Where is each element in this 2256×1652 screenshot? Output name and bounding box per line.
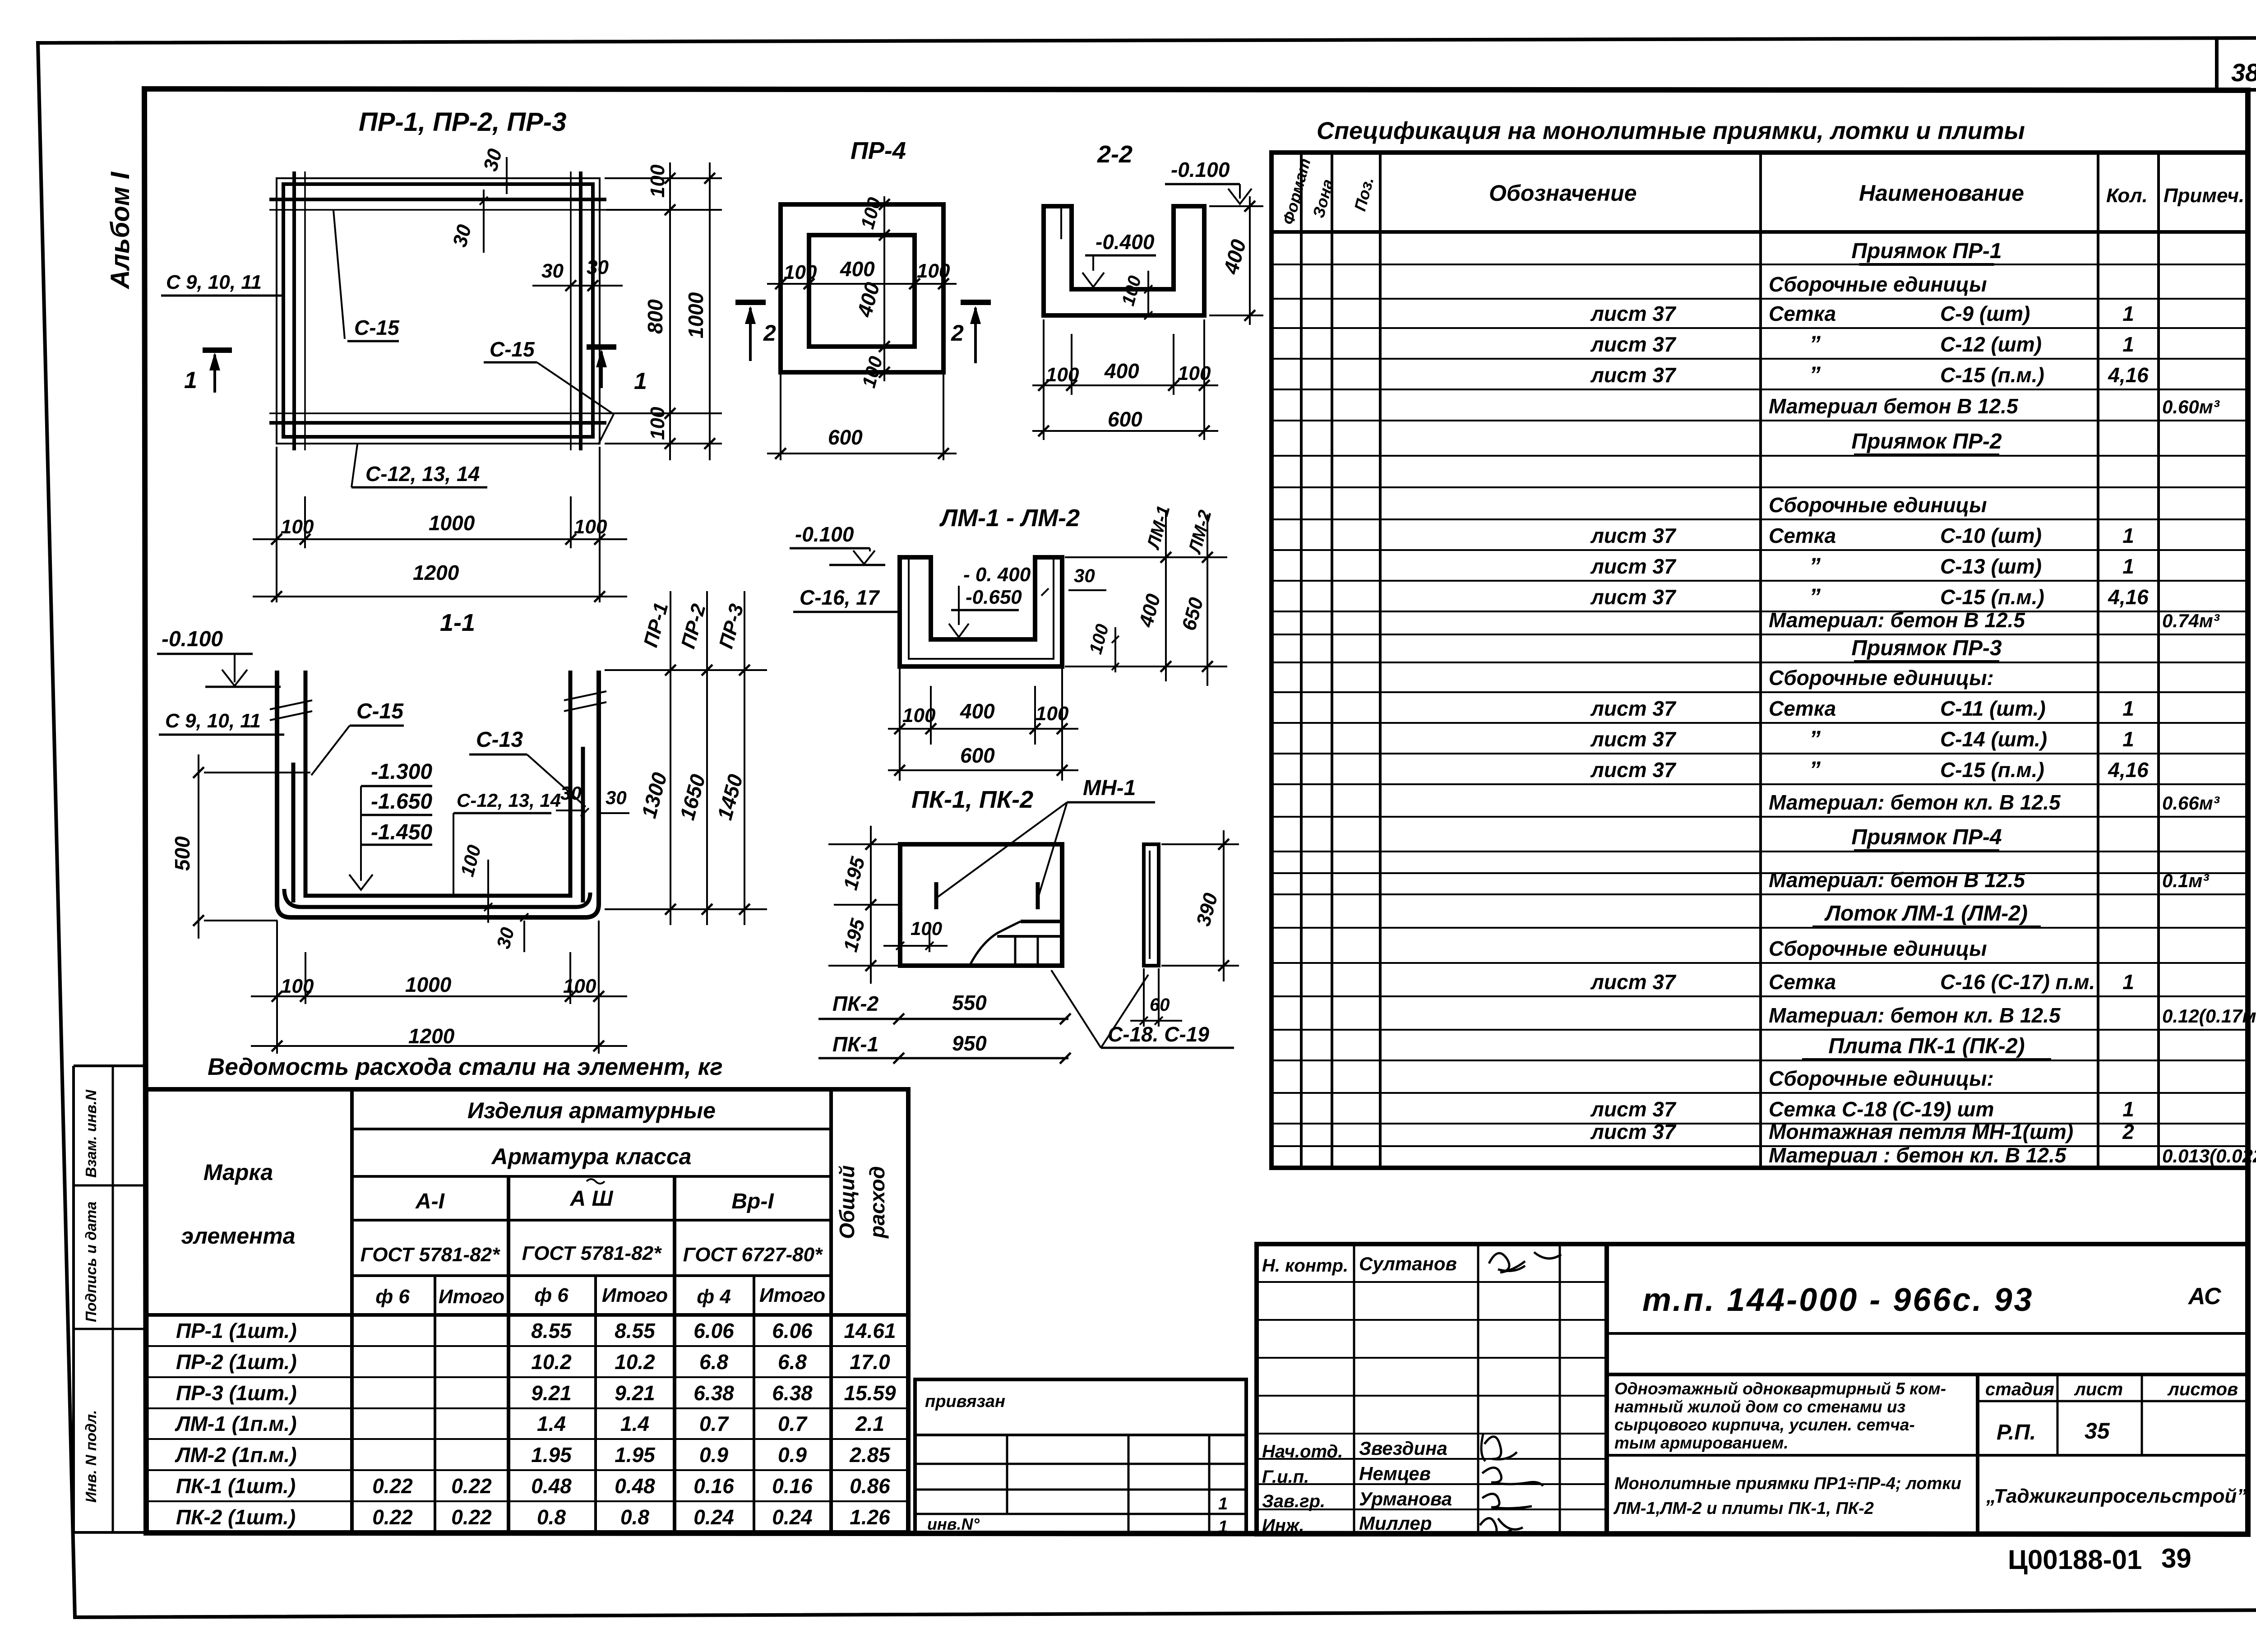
steel table header horizontals bbox=[352, 1128, 831, 1130]
svg-text:10.2: 10.2 bbox=[531, 1350, 572, 1374]
svg-text:39: 39 bbox=[2161, 1543, 2191, 1573]
svg-text:Н. контр.: Н. контр. bbox=[1262, 1256, 1348, 1276]
svg-text:100: 100 bbox=[1036, 703, 1069, 725]
svg-text:1: 1 bbox=[634, 368, 647, 394]
svg-text:0.9: 0.9 bbox=[699, 1443, 728, 1467]
section 1-1 bottom dims 100 1000 100 bbox=[276, 921, 278, 1054]
svg-text:0.16: 0.16 bbox=[772, 1474, 813, 1498]
svg-text:1: 1 bbox=[2122, 727, 2134, 751]
svg-text:„Таджикгипросельстрой”: „Таджикгипросельстрой” bbox=[1986, 1485, 2247, 1507]
svg-text:Изделия арматурные: Изделия арматурные bbox=[467, 1098, 716, 1123]
svg-text:30: 30 bbox=[560, 782, 582, 804]
svg-text:100: 100 bbox=[281, 975, 314, 997]
svg-text:расход: расход bbox=[865, 1166, 889, 1239]
svg-text:10.2: 10.2 bbox=[615, 1350, 655, 1374]
svg-text:195: 195 bbox=[839, 854, 869, 892]
specification table header bottom line bbox=[1271, 230, 2248, 234]
svg-text:Звездина: Звездина bbox=[1359, 1438, 1447, 1459]
svg-text:ЛМ-1,ЛМ-2 и плиты ПК-1, ПК-: ЛМ-1,ЛМ-2 и плиты ПК-1, ПК-2 bbox=[1613, 1499, 1874, 1518]
svg-text:17.0: 17.0 bbox=[850, 1350, 890, 1374]
svg-text:ПР-3 (1шт.): ПР-3 (1шт.) bbox=[176, 1381, 297, 1405]
LM U channel outline bbox=[900, 557, 1062, 666]
LM right dim chains 400 650 bbox=[1065, 556, 1227, 558]
svg-text:Альбом I: Альбом I bbox=[106, 171, 135, 290]
svg-text:0.86: 0.86 bbox=[850, 1474, 890, 1498]
svg-text:С-12, 13, 14: С-12, 13, 14 bbox=[457, 790, 561, 811]
signature table bbox=[1257, 1244, 1607, 1534]
svg-text:С-15: С-15 bbox=[356, 699, 404, 723]
svg-text:Формат: Формат bbox=[1279, 156, 1314, 227]
svg-text:0.013(0.022): 0.013(0.022) bbox=[2162, 1145, 2256, 1166]
svg-text:2: 2 bbox=[2122, 1120, 2134, 1143]
plan bottom dim 1200 bbox=[253, 596, 627, 597]
svg-text:0.66м³: 0.66м³ bbox=[2162, 792, 2220, 814]
svg-text:лист 37: лист 37 bbox=[1590, 302, 1677, 325]
svg-text:6.38: 6.38 bbox=[693, 1381, 734, 1405]
LM bottom dim 600 bbox=[888, 769, 1078, 771]
svg-text:2.85: 2.85 bbox=[849, 1443, 891, 1467]
svg-text:С-14 (шт.): С-14 (шт.) bbox=[1940, 727, 2047, 751]
svg-text:-0.100: -0.100 bbox=[795, 523, 854, 546]
svg-text:0.48: 0.48 bbox=[531, 1474, 572, 1498]
svg-text:Миллер: Миллер bbox=[1359, 1513, 1432, 1534]
svg-text:30: 30 bbox=[541, 260, 564, 282]
svg-text:лист 37: лист 37 bbox=[1590, 363, 1677, 387]
svg-text:ПР-1: ПР-1 bbox=[639, 600, 672, 649]
svg-text:Инж.: Инж. bbox=[1262, 1516, 1304, 1536]
svg-text:30: 30 bbox=[479, 146, 506, 173]
svg-text:Итого: Итого bbox=[759, 1284, 825, 1306]
svg-text:С-15 (п.м.): С-15 (п.м.) bbox=[1940, 363, 2044, 387]
svg-text:Плита ПК-1 (ПК-2): Плита ПК-1 (ПК-2) bbox=[1828, 1034, 2025, 1058]
specification table outer border bbox=[1271, 153, 2248, 1168]
svg-text:400: 400 bbox=[1219, 237, 1250, 277]
svg-text:Вр-I: Вр-I bbox=[731, 1189, 774, 1213]
svg-text:1: 1 bbox=[2122, 1097, 2134, 1121]
svg-text:С-13 (шт): С-13 (шт) bbox=[1940, 555, 2042, 578]
svg-text:Ведомость расхода стали н: Ведомость расхода стали на элемент, кг bbox=[208, 1054, 723, 1080]
section 1-1 U-shaped pit outline outer bbox=[277, 671, 599, 917]
svg-text:лист 37: лист 37 bbox=[1590, 585, 1677, 609]
svg-text:лист 37: лист 37 bbox=[1590, 970, 1677, 994]
svg-text:Обозначение: Обозначение bbox=[1489, 180, 1637, 206]
svg-text:1300: 1300 bbox=[637, 770, 671, 821]
svg-text:лист 37: лист 37 bbox=[1590, 524, 1677, 547]
LM mesh lines inside walls bbox=[908, 560, 910, 660]
svg-text:8.55: 8.55 bbox=[531, 1319, 572, 1342]
main title block bbox=[1607, 1244, 2248, 1534]
svg-text:Сетка: Сетка bbox=[1769, 524, 1836, 547]
svg-text:Зав.гр.: Зав.гр. bbox=[1262, 1491, 1325, 1511]
svg-text:”: ” bbox=[1809, 584, 1821, 609]
svg-text:ПК-1, ПК-2: ПК-1, ПК-2 bbox=[911, 786, 1033, 813]
svg-text:600: 600 bbox=[1108, 407, 1142, 431]
svg-text:С-18. С-19: С-18. С-19 bbox=[1108, 1023, 1209, 1046]
svg-text:ф 6: ф 6 bbox=[375, 1286, 410, 1308]
svg-text:800: 800 bbox=[643, 299, 667, 334]
sheet number box 38 top-right bbox=[2215, 39, 2219, 90]
svg-text:100: 100 bbox=[858, 354, 887, 390]
svg-text:1: 1 bbox=[2122, 524, 2134, 547]
svg-text:Арматура класса: Арматура класса bbox=[491, 1144, 692, 1169]
svg-text:тым армированием.: тым армированием. bbox=[1614, 1434, 1789, 1452]
svg-text:195: 195 bbox=[839, 916, 869, 954]
svg-text:2: 2 bbox=[951, 320, 964, 346]
svg-text:ПР-1, ПР-2, ПР-3: ПР-1, ПР-2, ПР-3 bbox=[359, 107, 566, 137]
svg-text:6.8: 6.8 bbox=[699, 1350, 728, 1374]
plan bottom dim chain 100-1000-100 bbox=[276, 447, 277, 602]
svg-text:4,16: 4,16 bbox=[2108, 363, 2149, 387]
svg-text:МН-1: МН-1 bbox=[1083, 776, 1136, 800]
svg-text:0.22: 0.22 bbox=[372, 1505, 413, 1529]
svg-text:С 9, 10, 11: С 9, 10, 11 bbox=[165, 710, 261, 732]
svg-text:Немцев: Немцев bbox=[1359, 1463, 1431, 1484]
plan PR-1/2/3 outer wall edge rectangle bbox=[277, 178, 600, 444]
svg-text:6.8: 6.8 bbox=[778, 1350, 807, 1374]
svg-text:6.38: 6.38 bbox=[772, 1381, 813, 1405]
left margin attachment strip bbox=[74, 1064, 145, 1067]
svg-text:0.22: 0.22 bbox=[372, 1474, 413, 1498]
svg-text:Сборочные единицы:: Сборочные единицы: bbox=[1769, 666, 1994, 689]
svg-text:1000: 1000 bbox=[684, 292, 707, 338]
svg-text:Сборочные единицы: Сборочные единицы bbox=[1769, 937, 1987, 960]
svg-text:Нач.отд.: Нач.отд. bbox=[1262, 1442, 1343, 1462]
specification table column lines bbox=[1300, 153, 1303, 1168]
svg-text:30: 30 bbox=[448, 222, 476, 249]
svg-text:Монолитные приямки ПР1÷ПР-4; л: Монолитные приямки ПР1÷ПР-4; лотки bbox=[1614, 1474, 1961, 1493]
svg-text:-0.100: -0.100 bbox=[162, 627, 223, 651]
svg-text:0.60м³: 0.60м³ bbox=[2162, 396, 2220, 417]
plan inner wall edge horizontal bottom bbox=[269, 412, 606, 414]
rebar mesh horizontal along floor bbox=[284, 889, 590, 907]
svg-text:ф 4: ф 4 bbox=[697, 1286, 731, 1308]
svg-text:1000: 1000 bbox=[429, 511, 475, 535]
plan inner wall edge vertical left bbox=[304, 171, 306, 450]
svg-text:-1.450: -1.450 bbox=[371, 820, 432, 844]
plan mesh grid thick vertical right bbox=[579, 171, 582, 450]
svg-text:ф 6: ф 6 bbox=[534, 1284, 569, 1306]
svg-text:30: 30 bbox=[492, 925, 518, 951]
svg-text:100: 100 bbox=[281, 516, 314, 538]
svg-text:ГОСТ 5781-82*: ГОСТ 5781-82* bbox=[522, 1242, 662, 1264]
svg-text:Наименование: Наименование bbox=[1859, 180, 2024, 206]
svg-text:0.9: 0.9 bbox=[778, 1443, 807, 1467]
svg-text:привязан: привязан bbox=[925, 1392, 1005, 1411]
svg-text:30: 30 bbox=[587, 256, 609, 278]
plan inner wall edge vertical right bbox=[570, 171, 572, 450]
svg-text:0.48: 0.48 bbox=[615, 1474, 655, 1498]
svg-text:лист: лист bbox=[2074, 1379, 2123, 1399]
svg-text:100: 100 bbox=[1086, 622, 1113, 656]
svg-text:100: 100 bbox=[574, 516, 607, 538]
svg-text:ЛМ-1 - ЛМ-2: ЛМ-1 - ЛМ-2 bbox=[939, 504, 1080, 532]
PR-4 horizontal dim line 100 400 100 bbox=[767, 283, 957, 285]
svg-text:АС: АС bbox=[2187, 1283, 2222, 1310]
svg-text:950: 950 bbox=[952, 1032, 987, 1055]
svg-text:С-15: С-15 bbox=[490, 338, 535, 361]
svg-text:0.8: 0.8 bbox=[620, 1505, 649, 1529]
svg-text:Подпись и дата: Подпись и дата bbox=[83, 1202, 99, 1323]
svg-text:Ц00188-01: Ц00188-01 bbox=[2008, 1545, 2142, 1575]
PK left dim chain 195 195 bbox=[828, 843, 898, 845]
svg-text:30: 30 bbox=[606, 787, 627, 808]
svg-text:ПР-2 (1шт.): ПР-2 (1шт.) bbox=[176, 1350, 297, 1374]
steel table data row lines bbox=[146, 1345, 908, 1347]
svg-text:1650: 1650 bbox=[675, 772, 710, 823]
svg-text:1: 1 bbox=[2122, 302, 2134, 325]
steel table verticals bbox=[350, 1089, 354, 1532]
svg-text:500: 500 bbox=[171, 836, 194, 871]
svg-text:С-16 (С-17) п.м.: С-16 (С-17) п.м. bbox=[1940, 970, 2095, 994]
svg-text:1: 1 bbox=[2122, 333, 2134, 356]
svg-text:”: ” bbox=[1809, 757, 1821, 782]
svg-text:-1.300: -1.300 bbox=[371, 760, 432, 784]
svg-text:0.7: 0.7 bbox=[778, 1412, 808, 1435]
svg-text:С-15 (п.м.): С-15 (п.м.) bbox=[1940, 585, 2044, 609]
svg-text:100: 100 bbox=[1178, 362, 1211, 384]
svg-text:Инв. N подл.: Инв. N подл. bbox=[83, 1410, 99, 1503]
svg-text:Г.и.п.: Г.и.п. bbox=[1262, 1467, 1309, 1487]
dim 60 below side plate bbox=[1143, 968, 1145, 1027]
plan inner wall edge horizontal top bbox=[269, 209, 606, 211]
svg-text:-1.650: -1.650 bbox=[371, 790, 432, 814]
section mark 1 right of plan bbox=[587, 344, 616, 350]
svg-text:0.12(0.17м³: 0.12(0.17м³ bbox=[2162, 1005, 2256, 1027]
rebar mesh vertical left in section 1-1 bbox=[291, 763, 296, 902]
svg-text:ПК-1: ПК-1 bbox=[832, 1032, 878, 1056]
svg-text:Материал: бетон кл. В 12.5: Материал: бетон кл. В 12.5 bbox=[1769, 791, 2061, 814]
svg-text:1: 1 bbox=[1218, 1518, 1228, 1536]
svg-text:Материал : бетон кл. В 12.5: Материал : бетон кл. В 12.5 bbox=[1769, 1143, 2067, 1167]
svg-text:Приямок ПР-4: Приямок ПР-4 bbox=[1851, 825, 2002, 849]
section 1-1 U-shape inner edge bbox=[305, 671, 570, 896]
PK side plate view bbox=[1144, 844, 1159, 966]
svg-text:0.24: 0.24 bbox=[772, 1505, 813, 1529]
steel table outer border bbox=[146, 1089, 908, 1532]
svg-text:1: 1 bbox=[1218, 1495, 1228, 1513]
MN-1 loop marks inside plate bbox=[934, 882, 938, 909]
break mark on left wall bbox=[270, 700, 312, 709]
svg-text:100: 100 bbox=[563, 975, 596, 997]
svg-text:А Ш: А Ш bbox=[570, 1187, 614, 1211]
svg-text:ПК-1 (1шт.): ПК-1 (1шт.) bbox=[176, 1474, 296, 1498]
svg-text:ЛМ-1: ЛМ-1 bbox=[1143, 504, 1174, 552]
svg-text:400: 400 bbox=[1104, 359, 1139, 383]
svg-text:Приямок ПР-2: Приямок ПР-2 bbox=[1851, 430, 2002, 453]
svg-text:листов: листов bbox=[2167, 1379, 2238, 1399]
svg-text:1200: 1200 bbox=[408, 1024, 455, 1048]
svg-text:100: 100 bbox=[647, 164, 669, 198]
svg-text:- 0. 400: - 0. 400 bbox=[963, 564, 1031, 586]
plan mesh grid thick horizontal top bbox=[269, 198, 606, 201]
svg-text:Материал: бетон В 12.5: Материал: бетон В 12.5 bbox=[1769, 868, 2025, 892]
svg-text:400: 400 bbox=[1135, 591, 1165, 629]
svg-text:Монтажная петля МН-1(шт): Монтажная петля МН-1(шт) bbox=[1769, 1120, 2073, 1143]
svg-text:лист 37: лист 37 bbox=[1590, 1097, 1677, 1121]
svg-text:6.06: 6.06 bbox=[693, 1319, 734, 1342]
svg-text:30: 30 bbox=[1074, 565, 1095, 586]
svg-text:9.21: 9.21 bbox=[531, 1381, 572, 1405]
2-2 bottom dim 600 bbox=[1032, 430, 1218, 432]
small mesh line left wall 2-2 bbox=[1060, 208, 1062, 239]
svg-text:лист 37: лист 37 bbox=[1590, 333, 1677, 356]
section mark 1 left of plan bbox=[203, 347, 232, 353]
section 2-2 U channel outline bbox=[1044, 206, 1204, 315]
svg-text:А-I: А-I bbox=[415, 1189, 445, 1213]
section mark 2 right of PR-4 bbox=[961, 300, 991, 305]
svg-text:400: 400 bbox=[852, 280, 884, 320]
svg-text:Материал: бетон кл. В 12.5: Материал: бетон кл. В 12.5 bbox=[1769, 1004, 2061, 1027]
svg-text:С-9 (шт): С-9 (шт) bbox=[1940, 302, 2030, 325]
plan PR-4 outer square bbox=[781, 204, 943, 372]
LM bottom dims 100 400 100 bbox=[899, 669, 901, 781]
section 1-1 bottom dim 1200 bbox=[251, 1045, 627, 1047]
svg-text:Сборочные единицы: Сборочные единицы bbox=[1769, 493, 1987, 517]
svg-text:2.1: 2.1 bbox=[855, 1412, 884, 1435]
svg-text:4,16: 4,16 bbox=[2108, 758, 2149, 782]
svg-text:С-12, 13, 14: С-12, 13, 14 bbox=[365, 462, 480, 486]
svg-text:390: 390 bbox=[1192, 890, 1222, 928]
svg-text:”: ” bbox=[1809, 362, 1821, 387]
svg-text:8.55: 8.55 bbox=[615, 1319, 656, 1342]
svg-text:ПК-2: ПК-2 bbox=[832, 992, 879, 1015]
svg-text:0.1м³: 0.1м³ bbox=[2162, 870, 2209, 891]
dim 390 side plate bbox=[1161, 843, 1239, 845]
PR-4 vertical dim chain 100 400 100 bbox=[883, 196, 885, 381]
svg-text:ГОСТ 6727-80*: ГОСТ 6727-80* bbox=[683, 1244, 823, 1266]
plan PR-1/2/3 outer mesh rectangle C-9,10,11 bbox=[283, 184, 593, 437]
svg-text:1000: 1000 bbox=[405, 973, 452, 996]
svg-text:-0.400: -0.400 bbox=[1096, 230, 1155, 254]
svg-text:1.95: 1.95 bbox=[615, 1443, 656, 1467]
svg-text:Кол.: Кол. bbox=[2106, 185, 2148, 207]
svg-text:100: 100 bbox=[456, 842, 485, 879]
svg-text:элемента: элемента bbox=[181, 1223, 295, 1249]
svg-text:Итого: Итого bbox=[602, 1284, 668, 1306]
svg-text:С-13: С-13 bbox=[476, 728, 523, 752]
svg-text:1: 1 bbox=[2122, 697, 2134, 720]
svg-text:стадия: стадия bbox=[1985, 1379, 2054, 1399]
svg-text:Сетка: Сетка bbox=[1769, 697, 1836, 720]
svg-text:Взам. инв.N: Взам. инв.N bbox=[83, 1089, 99, 1178]
svg-text:сырцового кирпича, усилен.: сырцового кирпича, усилен. сетча- bbox=[1614, 1416, 1915, 1434]
plan mesh grid thick horizontal bottom bbox=[269, 421, 606, 425]
right dim chains PR-1 PR-2 PR-3 for section 1-1 bbox=[605, 669, 767, 671]
svg-text:1.26: 1.26 bbox=[850, 1505, 890, 1529]
svg-text:1200: 1200 bbox=[413, 561, 459, 584]
right dim 400 for 2-2 bbox=[1209, 205, 1263, 207]
svg-text:ГОСТ 5781-82*: ГОСТ 5781-82* bbox=[361, 1244, 500, 1266]
svg-text:100: 100 bbox=[902, 704, 936, 727]
svg-text:ЛМ-2 (1п.м.): ЛМ-2 (1п.м.) bbox=[175, 1443, 297, 1467]
svg-text:Султанов: Султанов bbox=[1359, 1253, 1457, 1274]
broken corner detail of PK plate bbox=[970, 921, 1021, 965]
svg-text:100: 100 bbox=[647, 407, 669, 440]
svg-text:35: 35 bbox=[2085, 1418, 2110, 1444]
svg-text:-0.650: -0.650 bbox=[966, 586, 1022, 608]
svg-text:Сборочные единицы:: Сборочные единицы: bbox=[1769, 1067, 1994, 1090]
svg-text:Поз.: Поз. bbox=[1350, 175, 1377, 213]
svg-text:1.4: 1.4 bbox=[620, 1412, 649, 1435]
svg-text:100: 100 bbox=[856, 195, 885, 231]
svg-text:60: 60 bbox=[1150, 995, 1170, 1015]
svg-text:2-2: 2-2 bbox=[1097, 141, 1133, 168]
break mark on right wall bbox=[564, 691, 606, 700]
svg-text:1.4: 1.4 bbox=[537, 1412, 566, 1435]
svg-text:лист 37: лист 37 bbox=[1590, 555, 1677, 578]
svg-text:ПР-1 (1шт.): ПР-1 (1шт.) bbox=[176, 1319, 297, 1342]
svg-text:лист 37: лист 37 bbox=[1590, 727, 1677, 751]
svg-text:Урманова: Урманова bbox=[1359, 1488, 1452, 1509]
2-2 bottom dims 100 400 100 bbox=[1043, 319, 1045, 440]
svg-text:Примеч.: Примеч. bbox=[2164, 185, 2244, 207]
svg-text:0.16: 0.16 bbox=[693, 1474, 734, 1498]
svg-text:Спецификация на монолитные: Спецификация на монолитные приямки, лотк… bbox=[1317, 117, 2025, 144]
svg-text:С-11 (шт.): С-11 (шт.) bbox=[1940, 697, 2046, 720]
svg-text:ПК-2 (1шт.): ПК-2 (1шт.) bbox=[176, 1505, 296, 1529]
svg-text:”: ” bbox=[1809, 331, 1821, 356]
svg-text:ПР-2: ПР-2 bbox=[677, 602, 710, 651]
svg-text:0.24: 0.24 bbox=[693, 1505, 734, 1529]
section mark 2 left of PR-4 bbox=[735, 300, 766, 305]
svg-text:1-1: 1-1 bbox=[440, 609, 475, 636]
svg-text:2: 2 bbox=[763, 320, 776, 346]
svg-text:550: 550 bbox=[952, 991, 987, 1014]
svg-text:”: ” bbox=[1809, 726, 1821, 751]
svg-text:лист 37: лист 37 bbox=[1590, 1120, 1677, 1143]
svg-text:Р.П.: Р.П. bbox=[1997, 1421, 2036, 1444]
svg-text:100: 100 bbox=[917, 260, 950, 282]
svg-text:9.21: 9.21 bbox=[615, 1381, 655, 1405]
plan PR-4 inner square bbox=[809, 235, 915, 347]
svg-text:Материал: бетон В 12.5: Материал: бетон В 12.5 bbox=[1769, 608, 2025, 632]
svg-text:100: 100 bbox=[1046, 364, 1079, 386]
svg-text:38: 38 bbox=[2231, 58, 2256, 87]
svg-text:Лоток ЛМ-1 (ЛМ-2): Лоток ЛМ-1 (ЛМ-2) bbox=[1824, 902, 2028, 925]
svg-text:14.61: 14.61 bbox=[844, 1319, 896, 1342]
svg-text:С 9, 10, 11: С 9, 10, 11 bbox=[166, 271, 262, 293]
svg-text:Сетка: Сетка bbox=[1769, 302, 1836, 325]
svg-text:Общий: Общий bbox=[835, 1165, 859, 1239]
PR-4 bottom dim 600 bbox=[780, 375, 781, 460]
svg-text:ПР-4: ПР-4 bbox=[851, 137, 906, 164]
svg-text:натный жилой дом со стенами из: натный жилой дом со стенами из bbox=[1614, 1397, 1905, 1416]
svg-text:Сетка С-18 (С-19) шт: Сетка С-18 (С-19) шт bbox=[1769, 1097, 1994, 1121]
svg-text:Итого: Итого bbox=[439, 1286, 504, 1308]
svg-text:ЛМ-2: ЛМ-2 bbox=[1184, 508, 1215, 556]
signature squiggles bbox=[1489, 1252, 1561, 1273]
svg-text:С-16, 17: С-16, 17 bbox=[800, 586, 880, 609]
specification table row lines bbox=[1271, 264, 2248, 265]
svg-text:1450: 1450 bbox=[712, 772, 747, 823]
svg-text:100: 100 bbox=[1118, 273, 1145, 308]
svg-text:Материал бетон В 12.5: Материал бетон В 12.5 bbox=[1769, 394, 2019, 418]
svg-text:С-15: С-15 bbox=[354, 316, 400, 339]
svg-text:т.п. 144-000 - 966с. 93: т.п. 144-000 - 966с. 93 bbox=[1642, 1282, 2034, 1318]
svg-text:Одноэтажный одноквартирный 5 к: Одноэтажный одноквартирный 5 ком- bbox=[1614, 1379, 1946, 1398]
svg-text:400: 400 bbox=[840, 257, 875, 281]
svg-text:100: 100 bbox=[911, 918, 942, 939]
svg-text:0.8: 0.8 bbox=[537, 1505, 566, 1529]
privyazan box bbox=[915, 1379, 1246, 1534]
PK plate rectangle plan bbox=[900, 844, 1062, 966]
svg-text:Приямок ПР-1: Приямок ПР-1 bbox=[1851, 239, 2002, 263]
plan mesh grid thick vertical left bbox=[292, 171, 296, 450]
svg-text:-0.100: -0.100 bbox=[1171, 158, 1230, 181]
svg-text:650: 650 bbox=[1178, 595, 1207, 633]
svg-text:0.7: 0.7 bbox=[699, 1412, 729, 1435]
svg-text:лист 37: лист 37 bbox=[1590, 758, 1677, 782]
